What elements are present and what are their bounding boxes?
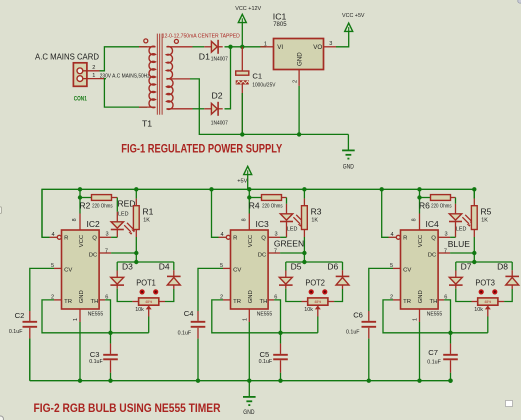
resistor R4 220 Ohms bbox=[262, 195, 282, 201]
svg-text:220 Ohms: 220 Ohms bbox=[262, 204, 283, 210]
CON1 pin 1 bbox=[83, 78, 106, 80]
pin 8 stub IC2 bbox=[79, 214, 81, 231]
timer IC2 NE555 box bbox=[62, 230, 100, 309]
wire CV pin 5 IC2 bbox=[54, 267, 62, 269]
wire to D6 bbox=[342, 262, 344, 270]
wire R6 to LED anode bbox=[455, 198, 457, 204]
svg-text:0.1uF: 0.1uF bbox=[9, 329, 23, 335]
wire IC1 VO to VCC+5V bbox=[324, 46, 337, 48]
resistor R5 1K bbox=[471, 206, 477, 230]
svg-text:1N4007: 1N4007 bbox=[211, 120, 228, 126]
wire diode tie line bbox=[456, 261, 512, 263]
svg-text:4: 4 bbox=[52, 232, 55, 238]
svg-text:LED: LED bbox=[456, 227, 467, 233]
junction IC3 GND on ground rail bbox=[247, 379, 251, 383]
svg-text:GREEN: GREEN bbox=[274, 238, 304, 248]
svg-text:D6: D6 bbox=[327, 262, 338, 272]
wire LED cathode to Q pin bbox=[99, 236, 111, 238]
wire ground rail to GND symbol bbox=[347, 134, 349, 150]
svg-text:1: 1 bbox=[73, 318, 79, 321]
pin 8 stub IC4 bbox=[419, 214, 421, 231]
wire R2 to LED anode bbox=[116, 198, 118, 212]
svg-text:A.C MAINS CARD: A.C MAINS CARD bbox=[35, 52, 99, 62]
wire R2 right to LED bbox=[112, 197, 118, 199]
wire rail to R1 bbox=[135, 189, 137, 198]
svg-text:8: 8 bbox=[241, 218, 247, 221]
svg-text:5: 5 bbox=[220, 263, 223, 269]
svg-text:7: 7 bbox=[274, 248, 277, 254]
svg-text:R4: R4 bbox=[249, 201, 260, 211]
wire POT1 wiper down bbox=[148, 317, 150, 333]
wire POT3 wiper down bbox=[487, 317, 489, 333]
svg-text:GND: GND bbox=[297, 52, 304, 66]
svg-text:C2: C2 bbox=[15, 311, 25, 320]
wire IC3 GND to ground rail bbox=[248, 322, 250, 381]
svg-text:D1: D1 bbox=[199, 51, 210, 61]
svg-text:7: 7 bbox=[105, 248, 108, 254]
pin 1 stub IC2 bbox=[79, 309, 81, 322]
svg-text:POT1: POT1 bbox=[136, 278, 156, 288]
svg-text:GND: GND bbox=[343, 165, 355, 171]
svg-text:Q: Q bbox=[92, 236, 97, 242]
svg-text:2: 2 bbox=[92, 65, 95, 71]
wire VCC+12V stem bbox=[241, 23, 243, 47]
junction R1 top bbox=[134, 187, 138, 191]
svg-text:220 Ohms: 220 Ohms bbox=[92, 204, 113, 210]
wire D6 to pot right bbox=[334, 289, 342, 302]
svg-text:POT3: POT3 bbox=[475, 278, 495, 288]
wire D2 cathode up to rectified node bbox=[225, 47, 231, 109]
svg-text:CV: CV bbox=[64, 267, 72, 273]
capacitor C6 0.1uF bbox=[368, 311, 370, 321]
svg-text:48%: 48% bbox=[145, 300, 152, 304]
junction C6 on ground rail bbox=[367, 379, 371, 383]
svg-text:VO: VO bbox=[313, 44, 322, 51]
svg-text:C7: C7 bbox=[428, 348, 438, 357]
power flag +5V bbox=[244, 166, 252, 174]
svg-text:D2: D2 bbox=[212, 90, 223, 100]
wire DC to diode tie bbox=[473, 253, 475, 262]
phase dot secondary bbox=[174, 39, 178, 43]
wire VCC to pin8 IC2 bbox=[79, 189, 81, 213]
wire R1 to DC pin bbox=[135, 237, 137, 253]
svg-text:R: R bbox=[64, 236, 68, 242]
svg-text:220 Ohms: 220 Ohms bbox=[431, 204, 452, 210]
svg-text:CON1: CON1 bbox=[74, 95, 87, 102]
junction rail end C7 bbox=[448, 379, 452, 383]
wire to D8 bbox=[511, 262, 513, 270]
svg-text:1K: 1K bbox=[481, 218, 488, 224]
svg-text:DC: DC bbox=[428, 253, 437, 259]
phase dot primary bbox=[144, 39, 148, 43]
svg-text:FIG-1 REGULATED POWER SUPPLY: FIG-1 REGULATED POWER SUPPLY bbox=[121, 143, 282, 156]
ground symbol (FIG-2) bbox=[243, 396, 256, 398]
junction TH/C5 on tie line bbox=[278, 331, 282, 335]
svg-text:+5V: +5V bbox=[237, 179, 247, 185]
svg-text:C4: C4 bbox=[184, 309, 194, 318]
wire LED cathode to Q pin bbox=[268, 236, 280, 238]
svg-text:C3: C3 bbox=[90, 350, 100, 359]
svg-text:2: 2 bbox=[293, 80, 299, 83]
junction D1/D2 cathodes bbox=[228, 45, 232, 49]
svg-text:VCC +12V: VCC +12V bbox=[235, 6, 261, 12]
junction TH/C3 on tie line bbox=[108, 331, 112, 335]
wire C3 to ground rail bbox=[110, 373, 112, 381]
svg-text:LED: LED bbox=[287, 227, 298, 233]
wire VCC to pin8 IC4 bbox=[419, 189, 421, 213]
svg-text:VCC: VCC bbox=[248, 234, 254, 247]
junction C7 on ground rail bbox=[448, 379, 452, 383]
capacitor C6 plates bbox=[362, 321, 377, 323]
diode D6 bbox=[336, 275, 350, 277]
junction DC node IC3 bbox=[302, 251, 306, 255]
pin 1 stub IC3 bbox=[248, 309, 250, 322]
capacitor C4 plates bbox=[191, 321, 206, 323]
wire to R6 bbox=[420, 197, 431, 199]
wire rail to R5 bbox=[473, 189, 475, 198]
svg-text:IC1: IC1 bbox=[273, 12, 287, 22]
wire +5V stem bbox=[247, 175, 249, 190]
svg-text:CV: CV bbox=[233, 267, 241, 273]
terminal dot POT3 b bbox=[492, 289, 497, 294]
capacitor C1 bbox=[241, 47, 243, 71]
artifact top-right mark bbox=[518, 0, 521, 3]
svg-text:48%: 48% bbox=[484, 300, 491, 304]
svg-text:D3: D3 bbox=[122, 262, 133, 272]
timer IC4 NE555 box bbox=[401, 230, 439, 309]
transformer T1 bbox=[149, 46, 155, 107]
wire VCC to pin8 IC3 bbox=[248, 189, 250, 213]
svg-text:TR: TR bbox=[233, 299, 241, 305]
svg-text:5: 5 bbox=[51, 263, 54, 269]
pin 8 stub IC3 bbox=[248, 214, 250, 231]
svg-text:1000u/25V: 1000u/25V bbox=[252, 82, 275, 88]
svg-text:R2: R2 bbox=[80, 201, 91, 211]
svg-text:CV: CV bbox=[403, 267, 411, 273]
wire FIG-2 ground rail bbox=[30, 380, 451, 382]
wire LED cathode to Q pin bbox=[438, 236, 450, 238]
junction C4 on ground rail bbox=[196, 379, 200, 383]
wire center tap to ground rail bbox=[190, 79, 348, 134]
wire C7 to ground rail bbox=[450, 373, 452, 381]
resistor R1 1K bbox=[133, 206, 139, 230]
wire DC to diode tie bbox=[303, 253, 305, 262]
svg-text:GND: GND bbox=[243, 410, 255, 416]
svg-text:3: 3 bbox=[106, 231, 109, 237]
wire DC pin 7 IC4 bbox=[438, 252, 450, 254]
svg-text:TH: TH bbox=[260, 299, 268, 305]
wire CON1 pin1 to T1 primary bottom bbox=[104, 79, 147, 108]
junction diode tie bbox=[134, 260, 138, 264]
wire T1 secondary bottom to D2 bbox=[193, 108, 205, 110]
wire CV pin 5 IC4 bbox=[393, 267, 401, 269]
diode D5 bbox=[279, 277, 292, 284]
transformer core bbox=[156, 34, 158, 115]
svg-text:TH: TH bbox=[430, 299, 438, 305]
svg-text:0.1uF: 0.1uF bbox=[89, 359, 103, 365]
wire TR pin 2 IC3 bbox=[223, 299, 231, 301]
wire rail to R3 bbox=[303, 189, 305, 198]
svg-text:1: 1 bbox=[413, 318, 419, 321]
svg-text:DC: DC bbox=[258, 253, 267, 259]
svg-text:1: 1 bbox=[242, 318, 248, 321]
svg-text:D7: D7 bbox=[461, 262, 472, 272]
junction IC2 GND on ground rail bbox=[78, 379, 82, 383]
svg-text:1K: 1K bbox=[311, 218, 318, 224]
svg-text:D5: D5 bbox=[291, 262, 302, 272]
CON1 pin 2 bbox=[83, 70, 100, 72]
svg-text:GND: GND bbox=[418, 290, 424, 303]
svg-text:GND: GND bbox=[79, 290, 85, 303]
capacitor C2 0.1uF bbox=[29, 311, 31, 321]
svg-text:3: 3 bbox=[445, 231, 448, 237]
svg-text:C5: C5 bbox=[260, 350, 270, 359]
svg-text:FIG-2 RGB BULB USING NE555 TI: FIG-2 RGB BULB USING NE555 TIMER bbox=[34, 402, 221, 415]
svg-text:0.1uF: 0.1uF bbox=[178, 331, 192, 337]
svg-text:POT2: POT2 bbox=[305, 278, 325, 288]
wire IC4 GND to ground rail bbox=[419, 322, 421, 381]
svg-text:Q: Q bbox=[261, 236, 266, 242]
svg-text:VCC +5V: VCC +5V bbox=[342, 13, 365, 19]
svg-text:LED: LED bbox=[118, 212, 129, 218]
diode D8 bbox=[505, 275, 519, 277]
wire to R2 bbox=[80, 197, 92, 199]
wire C6 to ground rail bbox=[368, 339, 370, 381]
inversion bubble R pin IC2 bbox=[57, 235, 61, 239]
svg-text:TR: TR bbox=[64, 299, 72, 305]
capacitor C5 0.1uF bbox=[280, 333, 282, 344]
svg-text:TR: TR bbox=[403, 299, 411, 305]
svg-text:R6: R6 bbox=[419, 201, 430, 211]
junction VCC riser IC2 bbox=[78, 187, 82, 191]
wire to D5 bbox=[285, 262, 287, 271]
svg-text:7805: 7805 bbox=[273, 22, 287, 28]
capacitor C7 0.1uF bbox=[450, 333, 452, 344]
wire IC1 GND to ground rail bbox=[298, 86, 300, 134]
svg-text:IC2: IC2 bbox=[87, 219, 101, 229]
wire diode tie line bbox=[286, 261, 343, 263]
wire to D3 bbox=[116, 262, 118, 271]
wire to D7 bbox=[455, 262, 457, 271]
svg-text:1K: 1K bbox=[143, 218, 150, 224]
wire TR pin 2 IC2 bbox=[54, 299, 62, 301]
svg-text:C6: C6 bbox=[353, 311, 363, 320]
inversion bubble R pin IC4 bbox=[396, 235, 400, 239]
svg-text:4: 4 bbox=[391, 232, 394, 238]
svg-text:1: 1 bbox=[92, 73, 95, 79]
svg-text:12-0-12,750mA CENTER TAPPED: 12-0-12,750mA CENTER TAPPED bbox=[162, 34, 240, 40]
svg-text:8: 8 bbox=[412, 218, 418, 221]
svg-text:48%: 48% bbox=[314, 300, 321, 304]
svg-text:1N4007: 1N4007 bbox=[211, 56, 228, 62]
diode D1 bbox=[204, 46, 211, 48]
diode D3 bbox=[111, 277, 124, 284]
wire TH pin 6 IC3 bbox=[268, 299, 274, 301]
svg-text:10k: 10k bbox=[135, 307, 144, 313]
artifact left-edge tab bbox=[0, 207, 2, 214]
wire D4 to pot right bbox=[165, 289, 174, 302]
wire to R4 bbox=[249, 197, 261, 199]
wire rail to R pin IC3 bbox=[212, 189, 219, 237]
svg-text:R3: R3 bbox=[311, 206, 322, 216]
terminal dot POT3 a bbox=[479, 289, 484, 294]
wire T1 secondary top to D1 bbox=[193, 46, 205, 48]
wire R4 right to LED bbox=[282, 197, 287, 199]
wire CON1 pin2 to T1 primary top bbox=[100, 47, 148, 71]
wire POT2 wiper down bbox=[317, 317, 319, 333]
wire C5 to ground rail bbox=[280, 373, 282, 381]
terminal dot POT1 a bbox=[140, 289, 145, 294]
junction DC node IC4 bbox=[472, 251, 476, 255]
svg-text:8: 8 bbox=[72, 218, 78, 221]
junction IC1 GND on ground rail bbox=[297, 132, 301, 136]
wire rail to R pin IC4 bbox=[382, 189, 389, 237]
pin 1 stub IC4 bbox=[419, 309, 421, 322]
artifact corner circle bbox=[0, 416, 4, 420]
svg-text:5: 5 bbox=[390, 263, 393, 269]
svg-text:NE555: NE555 bbox=[427, 312, 443, 318]
LED BLUE bbox=[455, 204, 457, 214]
potentiometer POT1 10k bbox=[132, 301, 138, 303]
svg-text:R: R bbox=[233, 236, 237, 242]
svg-text:6: 6 bbox=[444, 294, 447, 300]
svg-text:0.1uF: 0.1uF bbox=[346, 329, 360, 335]
wire DC pin 7 IC2 bbox=[99, 252, 111, 254]
svg-text:0.1uF: 0.1uF bbox=[427, 359, 441, 365]
svg-text:10k: 10k bbox=[304, 307, 313, 313]
wire DC to diode tie bbox=[135, 253, 137, 262]
diode D4 bbox=[167, 275, 181, 277]
svg-text:D8: D8 bbox=[497, 262, 508, 272]
wire R4 to LED anode bbox=[286, 198, 288, 204]
svg-text:D4: D4 bbox=[159, 262, 170, 272]
potentiometer POT3 10k bbox=[472, 301, 478, 303]
diode D7 bbox=[449, 277, 462, 284]
inversion bubble R pin IC3 bbox=[226, 235, 230, 239]
svg-text:IC4: IC4 bbox=[426, 219, 440, 229]
svg-text:6: 6 bbox=[274, 294, 277, 300]
junction R2 left bbox=[78, 195, 82, 199]
junction IC4 GND on ground rail bbox=[417, 379, 421, 383]
svg-text:VCC: VCC bbox=[418, 234, 424, 247]
capacitor C2 plates bbox=[23, 321, 38, 323]
svg-text:2: 2 bbox=[390, 294, 393, 300]
svg-text:GND: GND bbox=[248, 290, 254, 303]
terminal dot POT2 b bbox=[322, 289, 327, 294]
svg-text:NE555: NE555 bbox=[257, 312, 273, 318]
junction C1 bottom on ground rail bbox=[240, 132, 244, 136]
svg-text:TH: TH bbox=[91, 299, 99, 305]
resistor R6 220 Ohms bbox=[431, 195, 451, 201]
power flag VCC +5V bbox=[345, 23, 353, 31]
junction diode tie bbox=[472, 260, 476, 264]
pin 2 stub (IC1 GND) bbox=[298, 70, 300, 86]
wire to D4 bbox=[173, 262, 175, 270]
LED GREEN bbox=[286, 204, 288, 214]
svg-text:R1: R1 bbox=[143, 206, 154, 216]
svg-text:VI: VI bbox=[277, 44, 283, 51]
connector CON1 bbox=[73, 63, 87, 87]
svg-text:T1: T1 bbox=[142, 118, 152, 128]
regulator IC1 7805 bbox=[274, 39, 324, 70]
junction R5 top bbox=[472, 187, 476, 191]
svg-text:230V A.C MAINS,50Hz: 230V A.C MAINS,50Hz bbox=[100, 74, 150, 80]
terminal dot POT2 a bbox=[309, 289, 314, 294]
wire D8 to pot right bbox=[504, 289, 512, 302]
svg-text:7: 7 bbox=[444, 248, 447, 254]
svg-text:C1: C1 bbox=[252, 72, 262, 81]
wire TH pin 6 IC4 bbox=[438, 299, 444, 301]
svg-text:6: 6 bbox=[105, 294, 108, 300]
junction DC node IC2 bbox=[134, 251, 138, 255]
timer IC3 NE555 box bbox=[231, 230, 269, 309]
svg-text:3: 3 bbox=[275, 231, 278, 237]
wire diode tie line bbox=[117, 261, 174, 263]
resistor R2 220 Ohms bbox=[92, 195, 112, 201]
junction reset riser IC4 bbox=[380, 187, 384, 191]
wire D7 to pot left bbox=[456, 289, 472, 302]
wire DC pin 7 IC3 bbox=[268, 252, 280, 254]
junction R4 left bbox=[247, 195, 251, 199]
wire D1 cathode to IC1 VI bbox=[225, 46, 267, 48]
wire C2 bottom leg bbox=[29, 339, 31, 381]
wire C4 to ground rail bbox=[197, 339, 199, 381]
svg-text:2: 2 bbox=[220, 294, 223, 300]
svg-text:IC3: IC3 bbox=[256, 219, 270, 229]
junction VCC riser IC3 bbox=[247, 187, 251, 191]
svg-text:10k: 10k bbox=[474, 307, 483, 313]
wire R5 to DC pin bbox=[473, 237, 475, 253]
svg-text:Q: Q bbox=[431, 236, 436, 242]
junction TH/C7 on tie line bbox=[448, 331, 452, 335]
capacitor C3 0.1uF bbox=[110, 333, 112, 344]
wire C2 to ground rail bbox=[29, 339, 31, 381]
junction C1 top node bbox=[240, 45, 244, 49]
wire ground rail to GND symbol bbox=[248, 381, 250, 397]
diode D2 bbox=[204, 108, 211, 110]
junction C3 on ground rail bbox=[108, 379, 112, 383]
junction C5 on ground rail bbox=[278, 379, 282, 383]
svg-text:4: 4 bbox=[221, 232, 224, 238]
wire R6 right to LED bbox=[451, 197, 456, 199]
ground symbol (power supply) bbox=[342, 149, 355, 151]
terminal dot POT1 b bbox=[153, 289, 158, 294]
potentiometer POT2 10k bbox=[302, 301, 308, 303]
LED RED bbox=[116, 212, 118, 222]
svg-text:DC: DC bbox=[89, 253, 98, 259]
wire rail to R pin IC2 bbox=[42, 189, 50, 237]
svg-text:0.1uF: 0.1uF bbox=[259, 359, 273, 365]
junction R6 left bbox=[417, 195, 421, 199]
junction VCC riser IC4 bbox=[417, 187, 421, 191]
wire D5 to pot left bbox=[286, 289, 302, 302]
svg-text:NE555: NE555 bbox=[88, 312, 104, 318]
svg-text:R: R bbox=[403, 236, 407, 242]
svg-text:1: 1 bbox=[264, 42, 267, 48]
wire D3 to pot left bbox=[117, 289, 132, 302]
power flag VCC +12V bbox=[238, 14, 246, 22]
wire +5V rail bbox=[42, 189, 474, 237]
junction reset riser IC3 bbox=[209, 187, 213, 191]
svg-text:BLUE: BLUE bbox=[448, 239, 471, 249]
artifact handle square bbox=[506, 401, 513, 407]
junction R3 top bbox=[302, 187, 306, 191]
capacitor C4 0.1uF bbox=[197, 311, 199, 321]
svg-text:R5: R5 bbox=[481, 206, 492, 216]
wire R3 to DC pin bbox=[303, 237, 305, 253]
junction diode tie bbox=[302, 260, 306, 264]
resistor R3 1K bbox=[302, 206, 308, 230]
